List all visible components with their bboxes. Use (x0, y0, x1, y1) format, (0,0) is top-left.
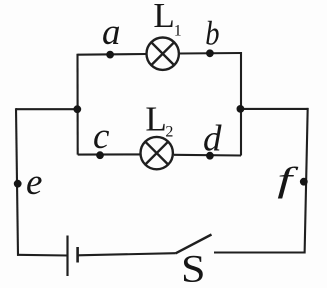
svg-text:d: d (203, 119, 222, 160)
svg-text:e: e (26, 162, 42, 203)
svg-text:b: b (205, 14, 219, 52)
svg-text:L: L (153, 0, 174, 35)
svg-text:1: 1 (174, 22, 182, 39)
svg-text:L: L (145, 100, 166, 139)
svg-text:c: c (93, 116, 110, 157)
svg-text:a: a (102, 12, 121, 53)
svg-text:2: 2 (165, 123, 173, 140)
svg-text:S: S (181, 248, 206, 288)
svg-text:f: f (277, 160, 298, 199)
